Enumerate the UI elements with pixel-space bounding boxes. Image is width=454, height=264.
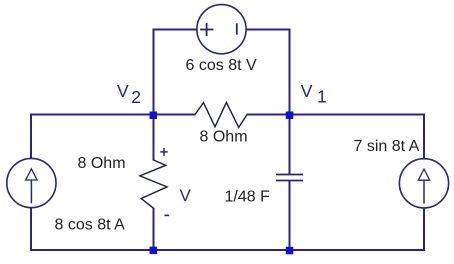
svg-text:1/48 F: 1/48 F (225, 189, 271, 206)
resistor (horizontal, 8 Ohm) zigzag between V2 and V1 (195, 102, 247, 127)
svg-text:8 Ohm: 8 Ohm (78, 155, 126, 172)
current source (7 sin 8t A), right circle symbol (399, 159, 448, 208)
wire: capacitor branch top stub (node V1 down to top plate) (289, 115, 291, 175)
voltage source minus mark (vertical bar) (236, 23, 238, 34)
wire: main row node V1 to right edge (290, 114, 426, 116)
node label V1 (301, 81, 327, 107)
wire: left vertical top segment (left edge down to current source) (30, 115, 32, 160)
wire: bottom bus (30, 249, 425, 251)
polarity plus mark of V across resistor (160, 148, 167, 156)
node: bottom junction under V1 (286, 247, 294, 255)
svg-text:1: 1 (317, 87, 327, 107)
wire: resistor branch top stub (node V2 down to zigzag) (153, 115, 155, 161)
svg-text:V: V (180, 186, 192, 205)
svg-text:8 Ohm: 8 Ohm (200, 129, 248, 146)
wire: main row V2 to horizontal resistor (154, 114, 196, 116)
node label V2 (117, 81, 141, 107)
wire: inner loop left vertical (node V2 up to top wire) (153, 29, 155, 116)
polarity minus mark of V across resistor (165, 214, 170, 216)
wire: right vertical bottom segment (current source to bottom bus) (423, 208, 425, 251)
wire: inner loop right vertical (top wire down to node V1) (289, 29, 291, 116)
current source (8 cos 8t A), left circle symbol (7, 158, 56, 207)
resistor (vertical, 8 Ohm) zigzag below node V2 (140, 160, 167, 208)
node V1 (junction square) (286, 112, 294, 120)
voltage source plus mark (200, 23, 213, 36)
current source left arrow (shaft + open head, pointing up) (26, 169, 37, 204)
node V2 (junction square) (150, 112, 158, 120)
svg-text:8 cos 8t A: 8 cos 8t A (55, 217, 126, 234)
wire: left vertical bottom segment (current source to bottom bus) (30, 208, 32, 251)
wire: right vertical top segment (right edge down to current source) (423, 115, 425, 160)
wire: capacitor branch bottom stub (bottom plate down to bottom bus) (289, 181, 291, 251)
capacitor (1/48 F) plates (276, 175, 303, 181)
svg-text:6 cos 8t V: 6 cos 8t V (186, 57, 257, 74)
wire: top bus left of main row (left edge to node V2) (30, 114, 154, 116)
voltage source (6 cos 8t V), circle symbol (197, 5, 246, 54)
svg-text:2: 2 (131, 87, 141, 107)
svg-text:7 sin 8t A: 7 sin 8t A (354, 138, 420, 155)
svg-text:V: V (117, 81, 129, 101)
wire: main row horizontal resistor to node V1 (247, 114, 290, 116)
current source right arrow (shaft + open head, pointing up) (418, 169, 429, 204)
wire: top wire left of voltage source (153, 29, 198, 31)
node: bottom junction under V2 (150, 247, 158, 255)
wire: resistor branch bottom stub (zigzag down to bottom node) (153, 208, 155, 250)
wire: top wire right of voltage source (246, 29, 291, 31)
svg-text:V: V (301, 81, 313, 101)
